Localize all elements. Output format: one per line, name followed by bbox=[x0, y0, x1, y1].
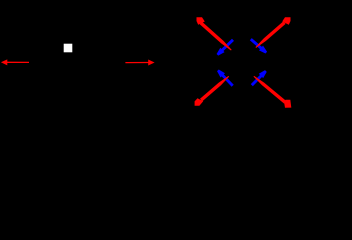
blue tangential arrow top-right bbox=[250, 38, 267, 53]
red radial arrow bottom-left bbox=[195, 76, 230, 106]
red radial arrow top-right bbox=[255, 17, 290, 48]
red radial arrow bottom-right bbox=[253, 76, 291, 108]
blue tangential arrow bottom-left bbox=[217, 69, 234, 86]
blue tangential arrow top-left bbox=[217, 39, 234, 56]
blue tangential arrow bottom-right bbox=[251, 70, 267, 86]
red arrow pointing right (left panel) bbox=[125, 60, 154, 66]
white square test mass bbox=[64, 44, 73, 53]
red arrow pointing left (left panel) bbox=[1, 59, 29, 65]
red radial arrow top-left bbox=[197, 17, 232, 50]
